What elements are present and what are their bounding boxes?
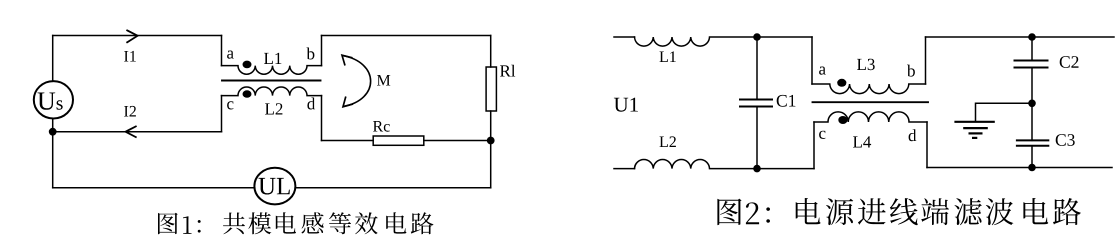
junction dot C1 top <box>753 33 761 41</box>
label I1 <box>124 51 136 62</box>
label L4 <box>853 136 871 147</box>
label b <box>307 48 315 60</box>
resistor Rl <box>486 67 496 111</box>
inductor L3 <box>812 84 926 94</box>
label Rl <box>500 65 515 77</box>
label C3 <box>1056 134 1075 146</box>
wire terminal a drop <box>221 36 223 66</box>
label L3 <box>857 59 875 70</box>
label c (L4) <box>819 131 825 139</box>
capacitor C3 <box>1016 103 1049 167</box>
inductor L1 <box>222 66 322 75</box>
label I2 <box>124 106 136 117</box>
label L1 (filter) <box>660 51 676 62</box>
wire right vertical top (rail to Rl) <box>490 36 492 68</box>
junction dot C1 bottom <box>753 165 761 173</box>
label L2 (filter) <box>660 136 676 147</box>
junction dot Us-I2 <box>49 128 57 136</box>
wire Rc rail left <box>322 140 374 142</box>
label a (L3) <box>819 67 826 75</box>
label C1 <box>777 95 796 107</box>
wire Rc rail right <box>424 140 491 142</box>
junction dot C2 top <box>1028 33 1036 41</box>
capacitor C2 <box>1014 37 1049 103</box>
wire top rail right <box>926 36 1115 38</box>
label b (L3) <box>907 65 915 77</box>
inductor L2 (filter) <box>635 160 815 169</box>
wire terminal c drop (L4) <box>813 122 815 169</box>
caption figure 1 : 图1：共模电感等效电路 <box>158 212 434 234</box>
caption figure 2 : 图2：电源进线端滤波电路 <box>717 198 1080 225</box>
wire bottom rail left (to UL) <box>53 187 255 189</box>
label M <box>377 75 390 86</box>
label a <box>227 51 234 59</box>
wire bottom rail right (UL to Rl branch) <box>295 187 490 189</box>
wire I2 rail <box>53 131 222 133</box>
inductor L2 <box>222 87 322 96</box>
wire terminal d drop (L4) <box>926 122 928 168</box>
junction dot mid C2-C3 <box>1028 100 1036 108</box>
wire terminal b rise (L3) <box>925 37 927 84</box>
resistor Rc <box>373 136 424 145</box>
wire left vertical top (Us to top rail) <box>52 36 54 82</box>
wire bottom rail left stub <box>614 168 635 170</box>
label c <box>227 101 233 109</box>
ground <box>954 122 994 138</box>
label U1 <box>614 98 638 112</box>
inductor L4 <box>814 112 927 122</box>
junction dot Rc-Rl <box>487 137 495 145</box>
wire bottom rail right <box>927 167 1112 169</box>
capacitor C1 <box>739 37 773 169</box>
wire top rail left stub <box>614 36 635 38</box>
dot polarity L1 <box>243 61 252 69</box>
dot polarity L2 <box>243 90 252 98</box>
arrow I1 current direction <box>126 30 137 43</box>
meter UL <box>254 168 295 205</box>
wire terminal d drop <box>321 96 323 141</box>
arrow I2 current direction <box>126 126 137 138</box>
inductor L1 (filter) <box>635 37 813 46</box>
wire left vertical bottom (Us to bottom rail) <box>52 119 54 188</box>
wire top rail right (b to Rl) <box>322 35 491 37</box>
source Us <box>34 81 73 118</box>
junction dot C3 bottom <box>1028 164 1036 172</box>
label L2 <box>265 103 282 114</box>
dot polarity L4 <box>838 116 847 124</box>
wire right vertical bottom (Rl to bottom rail) <box>490 111 492 188</box>
wire top rail left (to terminal a) <box>53 35 222 37</box>
core line of filter coupled inductor <box>813 101 929 103</box>
core line of coupled inductor <box>222 80 321 82</box>
label d (L4) <box>909 129 917 141</box>
wire ground branch <box>976 103 1033 122</box>
wire terminal b rise <box>321 36 323 66</box>
mutual inductance M arc <box>342 55 371 107</box>
label L1 <box>264 53 281 64</box>
wire terminal c drop <box>221 96 223 132</box>
label C2 <box>1060 56 1079 68</box>
label Rc <box>373 121 390 132</box>
label d <box>307 98 315 110</box>
wire terminal a drop (L3) <box>811 37 813 84</box>
dot polarity L3 <box>837 79 846 87</box>
